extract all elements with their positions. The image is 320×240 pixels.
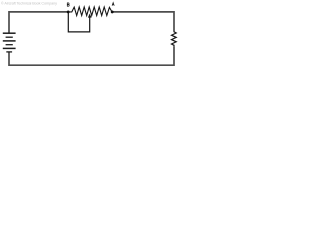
wire top from battery to node B	[9, 12, 68, 33]
battery BT1	[3, 33, 16, 52]
node A	[111, 10, 114, 13]
label A	[112, 3, 114, 6]
wire bottom	[9, 46, 174, 65]
rheostat resistor element B-A	[68, 7, 112, 16]
wire top from node A to right resistor	[112, 12, 174, 31]
label B	[67, 3, 69, 7]
resistor R (load, right side)	[172, 31, 177, 46]
node B	[67, 10, 70, 13]
rheostat wiper arm wire	[68, 12, 89, 32]
svg-text:© Aircraft Technical Book Comp: © Aircraft Technical Book Company	[1, 2, 57, 6]
wiper arrowhead	[88, 14, 92, 18]
